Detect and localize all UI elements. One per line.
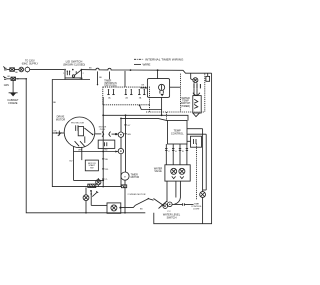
- timer motor circle: [193, 78, 198, 83]
- line switch contacts: [160, 91, 164, 97]
- solenoid 1: [171, 168, 177, 178]
- legend wire line: [134, 63, 141, 65]
- unbalance lever: [121, 198, 154, 208]
- timer motor contacts: [194, 83, 200, 88]
- dashed timer wiring verticals: [180, 74, 182, 112]
- svg-text:2: 2: [83, 73, 84, 75]
- pressure switch terminal: [172, 203, 194, 206]
- legend internal timer wiring line: [134, 58, 144, 60]
- capacitor box: [98, 140, 115, 148]
- dashed timer wiring: [204, 74, 206, 112]
- svg-text:WH: WH: [127, 134, 131, 136]
- timer dashed box: [103, 87, 150, 105]
- svg-text:FRAME: FRAME: [8, 101, 17, 105]
- bottom connector: [88, 184, 96, 187]
- svg-text:LIGHT: LIGHT: [193, 209, 200, 211]
- solenoid arrows: [194, 99, 198, 108]
- dashed stub: [149, 105, 151, 112]
- svg-text:PROTECTOR: PROTECTOR: [71, 122, 85, 124]
- ground wire: [12, 80, 14, 92]
- node J1: [130, 69, 132, 71]
- plug pair: [102, 132, 111, 137]
- motor left lead: [52, 131, 64, 136]
- plug pair label: [99, 127, 107, 131]
- line switch left lead: [140, 85, 147, 89]
- pressure switch contact P: [163, 204, 168, 209]
- motor bottom wire: [74, 146, 105, 181]
- temp control label: [171, 128, 184, 135]
- line switch right lead: [170, 86, 181, 88]
- water valve box: [165, 165, 190, 181]
- main bus to timer motor: [124, 115, 131, 172]
- temp control right wires: [187, 129, 206, 142]
- line switch box: [147, 79, 169, 98]
- aux box right: [191, 136, 202, 147]
- start switch box: [85, 160, 98, 171]
- node left bus top: [25, 78, 27, 80]
- water valve label: [154, 167, 163, 173]
- right column wire B: [203, 134, 207, 190]
- control light: [200, 192, 206, 224]
- timer motor label: [131, 174, 140, 179]
- ground symbol cabinet frame: [9, 93, 18, 97]
- power supply label: [22, 60, 39, 66]
- mid bus wire: [102, 114, 188, 120]
- pump box: [107, 203, 121, 213]
- line switch drop: [157, 70, 159, 78]
- connector block CB1: [10, 68, 15, 72]
- motor start wire: [74, 150, 119, 152]
- svg-text:(TIMER): (TIMER): [181, 105, 190, 108]
- small motor circle: [96, 178, 101, 187]
- bus tick 3: [102, 179, 109, 181]
- timer step wire: [139, 104, 162, 109]
- strain relief circle 1: [19, 67, 24, 72]
- temp control box: [168, 121, 188, 145]
- buzzer circle: [83, 188, 89, 214]
- cabinet frame label: [7, 98, 19, 105]
- svg-text:CONTROL: CONTROL: [171, 131, 184, 135]
- left inner bus: [102, 97, 104, 187]
- lever switch: [92, 191, 98, 196]
- svg-text:MOTOR: MOTOR: [131, 177, 140, 179]
- valve bottom wires: [167, 181, 180, 204]
- timer contact group 2: [125, 89, 133, 99]
- motor internal contacts: [75, 125, 94, 146]
- right edge wire: [154, 73, 212, 224]
- solenoid 2: [179, 168, 185, 178]
- timer motor cup: [193, 93, 200, 96]
- lid switch label: [63, 59, 85, 66]
- dashed timer wiring horizontal: [146, 111, 205, 113]
- start switch label: [88, 163, 96, 170]
- right column wire A: [202, 129, 204, 192]
- svg-text:TIMER: TIMER: [131, 174, 138, 176]
- svg-text:(SHOWN CLOSED): (SHOWN CLOSED): [63, 63, 85, 66]
- pump left wire: [91, 204, 107, 206]
- left neutral bus wire: [26, 79, 145, 213]
- timer motor circle TM: [121, 172, 129, 180]
- bus tick 1: [102, 159, 109, 161]
- water level switch label: [163, 211, 181, 220]
- svg-text:T: T: [124, 175, 126, 179]
- svg-text:W: W: [182, 151, 184, 153]
- wire with arrow: [90, 190, 92, 205]
- svg-text:GRN: GRN: [4, 85, 9, 87]
- wire drop to timer: [124, 71, 126, 87]
- terminal circle M1: [118, 132, 123, 137]
- timer contact group 3: [138, 89, 145, 99]
- water valve solenoid box: [193, 96, 201, 113]
- plug L1 prongs: [3, 67, 10, 70]
- node J2: [157, 69, 159, 71]
- motor winding lead 2: [81, 147, 83, 160]
- wire to temp control: [120, 118, 167, 121]
- main line wire with hops: [81, 68, 211, 73]
- strain relief circle 2: [25, 67, 30, 73]
- wire to left bus: [9, 78, 27, 79]
- wire to node: [112, 133, 119, 135]
- terminal circle M2: [118, 148, 123, 153]
- timer motor drop: [191, 73, 194, 80]
- svg-text:INTERNAL TIMER WIRING: INTERNAL TIMER WIRING: [145, 57, 184, 61]
- wire: [14, 69, 19, 71]
- vertical bus through M1: [120, 118, 122, 148]
- timer label: [104, 81, 117, 88]
- svg-text:VALVE: VALVE: [154, 170, 162, 173]
- small switch top right: [206, 73, 210, 81]
- water temp switch label: [181, 97, 191, 108]
- dashed wire to light: [196, 144, 198, 201]
- svg-text:60HZ. SUPPLY: 60HZ. SUPPLY: [22, 62, 39, 65]
- V joint: [193, 113, 200, 117]
- bus below M2: [120, 154, 122, 187]
- timer motor legs: [194, 88, 197, 95]
- console box outline: [52, 80, 121, 187]
- pressure switch contact V: [168, 202, 173, 207]
- valve leads: [165, 144, 188, 165]
- svg-text:SW: SW: [90, 168, 93, 170]
- svg-text:OFF POSN): OFF POSN): [104, 85, 117, 87]
- wire drop with arrow: [97, 71, 99, 85]
- lid switch: [63, 69, 83, 80]
- connector block CB2: [11, 77, 16, 80]
- svg-text:2 SPEED MOTOR: 2 SPEED MOTOR: [128, 194, 146, 196]
- drive motor circle: [64, 117, 95, 148]
- svg-text:WH: WH: [78, 149, 82, 151]
- bus tick 2: [102, 169, 109, 171]
- wire stub: [109, 72, 111, 80]
- wire below line switch: [161, 97, 163, 115]
- motor right lead: [95, 133, 102, 135]
- timer contact group 1: [107, 89, 114, 99]
- dashed to temp control: [166, 112, 168, 121]
- drive motor label: [56, 116, 65, 122]
- svg-text:1: 1: [63, 73, 64, 75]
- bus below timer motor: [124, 180, 126, 213]
- svg-text:SWITCH: SWITCH: [167, 217, 177, 220]
- control light label: [191, 204, 202, 211]
- svg-text:PLUG: PLUG: [100, 129, 106, 131]
- connector on box bottom: [121, 185, 126, 188]
- wire to lid switch: [30, 69, 64, 71]
- svg-text:MOTOR: MOTOR: [56, 118, 65, 121]
- line switch motor circle: [159, 84, 165, 90]
- plug GRN prong: [3, 76, 8, 79]
- pressure switch crossing: [154, 199, 168, 209]
- svg-text:WIRE: WIRE: [143, 63, 151, 67]
